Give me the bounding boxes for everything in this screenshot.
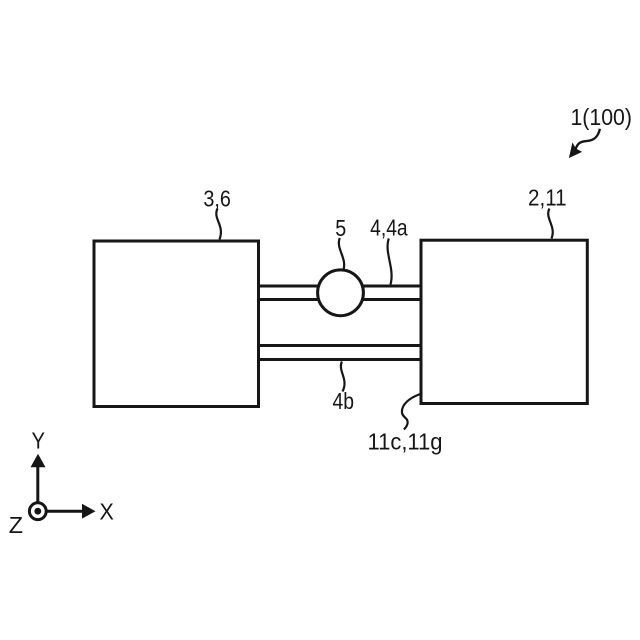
Y axis line (36, 466, 39, 502)
wire: upper rail 4,4a bottom line (258, 298, 421, 301)
svg-text:1(100): 1(100) (570, 104, 632, 130)
svg-text:11c,11g: 11c,11g (368, 429, 443, 455)
circle 5 (ball/roller on upper rail) (318, 270, 364, 316)
svg-text:2,11: 2,11 (528, 184, 567, 210)
svg-text:Z: Z (9, 512, 23, 538)
svg-text:3,6: 3,6 (203, 185, 231, 211)
leader squiggle to 3,6 (216, 209, 221, 240)
svg-text:Y: Y (32, 427, 46, 453)
leader squiggle to 4,4a (388, 239, 392, 285)
X axis arrowhead (82, 504, 96, 519)
X axis line (48, 510, 84, 513)
svg-text:4,4a: 4,4a (370, 214, 408, 240)
arrowhead of 1(100) (570, 144, 581, 158)
block 2,11 (right rectangle) (421, 240, 587, 403)
Y axis arrowhead (31, 454, 46, 468)
leader squiggle to 11c,11g (402, 394, 420, 429)
svg-text:5: 5 (335, 215, 346, 241)
leader squiggle to 2,11 (548, 209, 553, 239)
wire: lower rail 4b top line (258, 344, 421, 347)
leader squiggle to 4b (341, 362, 345, 392)
block 3,6 (left rectangle) (94, 241, 259, 407)
svg-text:X: X (100, 499, 114, 525)
wire: lower rail 4b bottom line (258, 358, 421, 361)
arrow leader for 1(100) (576, 129, 600, 149)
axis origin circle (Z axis out of page) (29, 503, 46, 520)
svg-text:4b: 4b (333, 388, 355, 414)
wire: upper rail 4,4a top line (258, 285, 421, 288)
axis origin dot (34, 508, 41, 515)
leader squiggle to 5 (339, 238, 344, 270)
